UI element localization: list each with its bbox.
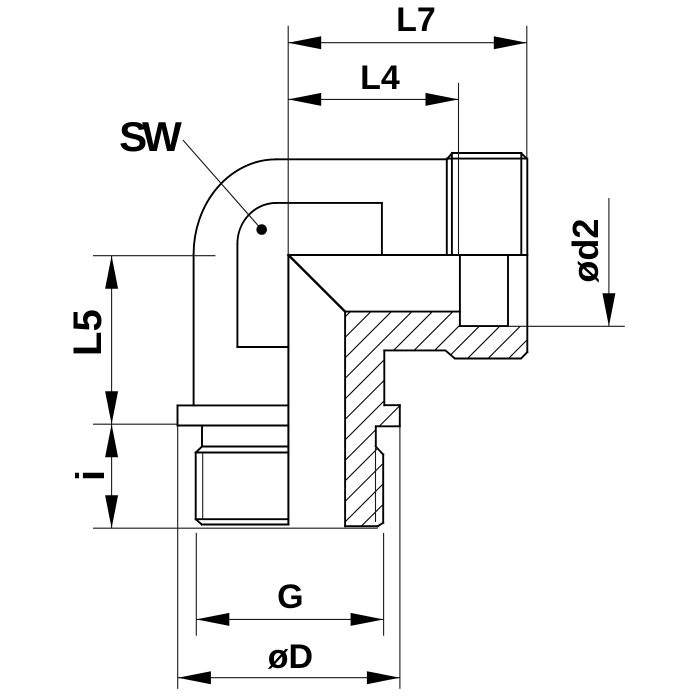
arrow oD right	[367, 671, 400, 684]
stud bottom tip line	[202, 524, 289, 526]
counterbore left edge	[459, 255, 461, 326]
arrow L4 right	[426, 93, 459, 106]
thread start line lower	[196, 452, 289, 454]
stud end annulus line	[345, 525, 378, 527]
arrow oD left	[178, 671, 211, 684]
outer bend arc	[194, 159, 277, 254]
arrow i up	[105, 424, 118, 457]
arrow G right	[351, 613, 384, 626]
bore wall vertical port	[344, 312, 346, 527]
body outer right of vertical arm	[383, 350, 385, 405]
thread root line left	[202, 453, 204, 520]
svg-text:øD: øD	[268, 638, 313, 676]
extension line L4 right	[458, 83, 460, 255]
arrow i down	[105, 495, 118, 528]
thread crest left	[195, 453, 197, 520]
svg-text:L7: L7	[396, 1, 436, 39]
hatching (section lines 45deg)	[122, 295, 613, 540]
svg-text:L5: L5	[66, 309, 110, 356]
bore wall horizontal port	[345, 311, 460, 313]
arrow L7 right	[494, 36, 527, 49]
svg-text:L4: L4	[360, 59, 400, 97]
dimension line L4	[288, 98, 458, 100]
counterbore right edge	[507, 255, 509, 326]
thread runout inner	[451, 153, 453, 255]
top stud left chamfer	[447, 153, 452, 159]
extension line axis left	[93, 255, 215, 257]
inner left wall	[236, 244, 238, 347]
top stud right chamfer	[521, 153, 527, 159]
SW leader dot	[256, 224, 267, 235]
dimension line G	[196, 618, 383, 620]
extension line G left	[195, 533, 197, 636]
arrow od2 down	[602, 293, 615, 326]
extension line oD left	[177, 426, 179, 689]
top stud chamfer circle	[520, 153, 522, 255]
thread start chamfer right	[376, 447, 383, 455]
dimension line oD	[178, 677, 400, 679]
extension line stud tip left	[93, 527, 378, 529]
arrow L5 up	[105, 256, 118, 289]
extension line L7 right	[526, 26, 528, 159]
top stud crest	[452, 152, 521, 154]
stud bottom chamfer	[196, 519, 202, 524]
inner top wall	[276, 202, 382, 204]
dimension line od2	[608, 198, 610, 326]
inner shoulder bottom	[237, 346, 288, 348]
right arm lower outline	[384, 350, 527, 358]
SW leader line	[183, 140, 262, 230]
neck left	[201, 426, 203, 447]
arrow L5 down	[105, 391, 118, 424]
thread crest right	[382, 455, 384, 523]
thread root line right	[375, 448, 377, 522]
dimension line L7	[288, 42, 527, 44]
thread start chamfer left	[196, 447, 202, 453]
flange left: top	[178, 404, 289, 406]
flange right section: bottom	[376, 425, 400, 427]
arrow L4 left	[288, 93, 321, 106]
arrow L7 left	[288, 36, 321, 49]
extension line od2	[508, 325, 625, 327]
svg-text:i: i	[69, 470, 113, 481]
extension line flange bottom left	[93, 423, 178, 425]
thread start line upper	[202, 446, 288, 448]
flange left: bottom	[178, 425, 289, 427]
thread runout outer	[446, 159, 448, 255]
vertical port axis edge	[287, 255, 289, 525]
right port end face	[526, 159, 528, 353]
45deg miter edge	[288, 255, 345, 312]
extension line oD right	[399, 426, 401, 689]
horizontal port axis edge	[288, 254, 527, 256]
flange right section: right edge	[399, 405, 401, 426]
thread end chamfer right	[378, 523, 383, 526]
outer top wall	[276, 158, 447, 160]
top stud root line	[447, 158, 526, 160]
svg-text:ød2: ød2	[565, 219, 606, 283]
counterbore bottom	[460, 325, 508, 327]
stud bottom crest-end line	[196, 518, 289, 520]
arrow G left	[196, 613, 229, 626]
neck right	[375, 426, 377, 446]
dimension line L5-i	[111, 256, 113, 529]
inner shoulder right	[381, 203, 383, 255]
flange left: left edge	[177, 405, 179, 425]
inner bend arc	[237, 203, 276, 244]
extension line G right	[383, 533, 385, 636]
outer left wall	[193, 254, 195, 405]
svg-text:SW: SW	[119, 113, 182, 160]
flange right section: top	[384, 404, 400, 406]
svg-text:G: G	[277, 578, 303, 616]
extension line L7/L4 left	[287, 26, 289, 255]
